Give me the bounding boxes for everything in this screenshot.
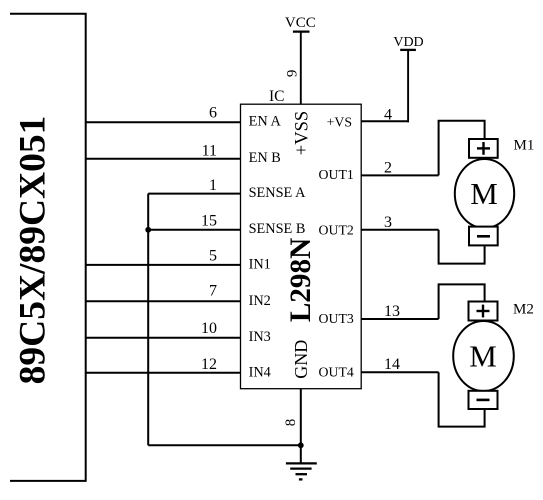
svg-text:GND: GND [291,340,311,379]
wire ground horizontal (sense net to ground) [148,444,301,446]
svg-text:12: 12 [201,356,217,373]
wire OUT3 to M2 plus terminal [439,284,485,319]
svg-text:+VSS: +VSS [293,111,313,155]
wire pin 5 IN1 [86,264,241,266]
svg-text:OUT2: OUT2 [319,222,354,237]
svg-text:IN1: IN1 [249,257,271,273]
wire OUT1 to M1 plus terminal [439,121,485,176]
wire pin 7 IN2 [86,300,241,302]
IC U1 L298N body [241,88,362,389]
svg-text:IN2: IN2 [249,293,271,309]
svg-text:OUT4: OUT4 [319,365,354,380]
svg-text:5: 5 [209,247,217,264]
svg-text:89C5X/89CX051: 89C5X/89CX051 [13,116,54,385]
wire VDD vertical to +VS net [407,50,409,122]
wire OUT2 to M1 minus terminal [439,230,485,264]
svg-text:SENSE A: SENSE A [249,185,306,201]
junction SENSE B [145,227,151,233]
svg-text:EN A: EN A [249,113,282,129]
svg-text:14: 14 [384,356,400,373]
microcontroller U2 89C5X/89CX051 box [10,14,86,481]
svg-text:+VS: +VS [327,114,352,129]
wire pin 2 OUT1 [361,174,438,176]
wire pin 1 SENSE A [148,193,240,195]
wire OUT4 to M2 minus terminal [439,372,485,426]
svg-text:M: M [470,176,498,211]
svg-text:7: 7 [209,283,217,300]
motor M1 [455,139,514,245]
svg-text:M2: M2 [513,301,534,317]
svg-text:VDD: VDD [393,35,423,50]
motor M2 [453,302,514,410]
svg-text:4: 4 [384,107,392,124]
wire pin 4 +VS [361,120,409,122]
svg-text:9: 9 [284,70,300,78]
wire pin 6 EN A [86,121,241,123]
svg-text:15: 15 [201,212,217,229]
wire pin 13 OUT3 [361,318,438,320]
wire pin 15 SENSE B [148,229,240,231]
svg-text:IC: IC [269,88,285,105]
svg-text:2: 2 [384,159,392,176]
svg-text:3: 3 [384,214,392,231]
svg-text:OUT3: OUT3 [319,311,354,326]
ground symbol [286,463,317,479]
wire pin 14 OUT4 [361,371,438,373]
svg-text:10: 10 [201,320,217,337]
svg-text:SENSE B: SENSE B [249,221,306,237]
svg-text:L298N: L298N [285,238,317,322]
svg-text:M: M [469,339,497,374]
power symbol VCC [285,15,316,32]
svg-text:IN3: IN3 [249,329,271,345]
svg-text:OUT1: OUT1 [319,167,354,182]
wire VCC to pin 9 (IC top) [300,32,302,105]
wire pin 3 OUT2 [361,229,438,231]
svg-text:VCC: VCC [285,15,316,31]
power symbol VDD [393,35,423,50]
wire pin 11 EN B [86,158,241,160]
svg-text:13: 13 [384,303,400,320]
svg-text:6: 6 [209,105,217,122]
svg-text:EN B: EN B [249,150,281,166]
svg-text:M1: M1 [514,137,535,153]
svg-text:11: 11 [202,143,217,160]
junction ground net [298,442,304,448]
wire pin 12 IN4 [86,372,241,374]
wire pin 8 GND (IC bottom to ground) [300,389,302,464]
svg-text:1: 1 [209,177,217,194]
svg-text:IN4: IN4 [249,364,271,380]
wire pin 10 IN3 [86,337,241,339]
wire sense vertical (SENSE A/B to ground net) [147,194,149,446]
svg-text:8: 8 [283,419,299,427]
